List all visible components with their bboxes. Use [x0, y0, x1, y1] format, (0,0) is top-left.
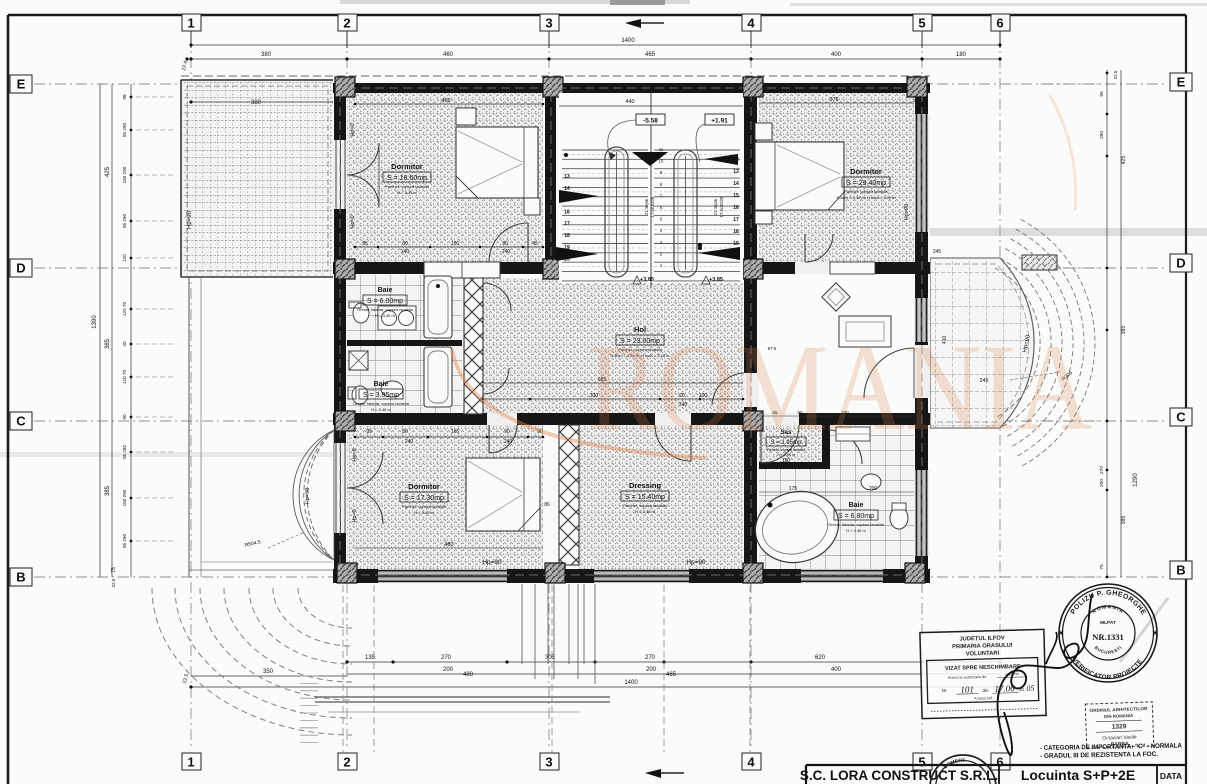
svg-text:Parchet, vopsea lavabila: Parchet, vopsea lavabila — [844, 189, 888, 194]
svg-text:240: 240 — [502, 249, 511, 255]
svg-text:S = 15.40mp: S = 15.40mp — [625, 494, 665, 501]
svg-text:465: 465 — [666, 672, 677, 678]
svg-text:465: 465 — [441, 98, 450, 104]
svg-text:22.5: 22.5 — [111, 578, 116, 587]
svg-text:Baie: Baie — [374, 381, 389, 388]
svg-text:H = 3.45 m: H = 3.45 m — [414, 510, 434, 515]
svg-text:Hp=90: Hp=90 — [686, 559, 706, 566]
svg-text:Parchet, vopsea lavabila: Parchet, vopsea lavabila — [385, 184, 429, 189]
svg-text:18: 18 — [564, 233, 570, 239]
svg-text:13: 13 — [564, 174, 570, 180]
svg-text:+3.85: +3.85 — [709, 277, 723, 283]
svg-text:95: 95 — [1099, 91, 1105, 97]
svg-text:S = 6.80mp: S = 6.80mp — [838, 513, 874, 520]
svg-text:Hp=0: Hp=0 — [352, 509, 358, 522]
svg-text:55 290: 55 290 — [122, 123, 127, 137]
svg-text:385: 385 — [1121, 516, 1127, 525]
svg-text:165: 165 — [451, 429, 460, 435]
svg-text:VOLUNTARI: VOLUNTARI — [966, 651, 1000, 658]
svg-text:22.5: 22.5 — [1113, 70, 1118, 79]
svg-text:26: 26 — [746, 98, 752, 103]
svg-text:90: 90 — [504, 429, 510, 435]
svg-text:Parchet, vopsea lavabila: Parchet, vopsea lavabila — [623, 503, 667, 508]
svg-text:2: 2 — [343, 16, 350, 31]
svg-text:17: 17 — [564, 221, 570, 227]
svg-text:80: 80 — [402, 241, 408, 247]
svg-text:Hp=90: Hp=90 — [482, 559, 502, 566]
svg-text:160 290: 160 290 — [122, 489, 127, 506]
svg-text:200: 200 — [869, 486, 878, 492]
svg-text:17.5x30/28: 17.5x30/28 — [719, 196, 724, 217]
svg-text:2: 2 — [343, 755, 350, 770]
svg-text:55 280: 55 280 — [122, 445, 127, 459]
svg-text:3: 3 — [545, 755, 552, 770]
svg-text:95: 95 — [362, 241, 368, 247]
svg-text:S = 17.30mp: S = 17.30mp — [404, 495, 444, 502]
svg-text:5: 5 — [918, 16, 925, 31]
svg-text:16: 16 — [733, 205, 739, 211]
svg-text:200: 200 — [646, 667, 657, 673]
svg-text:C: C — [16, 414, 26, 429]
svg-text:21 trepte: 21 trepte — [713, 198, 718, 215]
svg-text:A-lasul sef.: A-lasul sef. — [974, 696, 993, 700]
svg-text:385: 385 — [105, 338, 111, 349]
svg-text:Dormitor: Dormitor — [391, 162, 423, 171]
svg-text:480: 480 — [463, 672, 474, 678]
svg-text:Parchet, vopsea lavabila: Parchet, vopsea lavabila — [402, 504, 446, 509]
svg-text:16: 16 — [564, 209, 570, 215]
svg-text:S = 29.40mp: S = 29.40mp — [846, 180, 886, 187]
svg-text:14: 14 — [564, 186, 570, 192]
svg-text:25: 25 — [548, 101, 554, 106]
svg-text:✶: ✶ — [1057, 628, 1065, 638]
svg-text:Hp=0: Hp=0 — [350, 215, 356, 228]
svg-text:MLPAT: MLPAT — [1100, 620, 1116, 626]
svg-text:H = 3.45 m: H = 3.45 m — [397, 190, 417, 195]
svg-text:11: 11 — [659, 147, 664, 152]
svg-text:480: 480 — [444, 542, 453, 548]
svg-text:05: 05 — [1026, 684, 1034, 693]
svg-text:290: 290 — [1099, 131, 1105, 139]
svg-text:S = 18.60mp: S = 18.60mp — [387, 175, 427, 182]
svg-text:E: E — [1177, 75, 1186, 90]
svg-text:ROMANIA: ROMANIA — [588, 319, 1093, 456]
svg-text:270: 270 — [441, 655, 452, 661]
svg-text:15: 15 — [733, 193, 739, 199]
svg-text:14: 14 — [733, 181, 739, 187]
svg-text:19: 19 — [733, 241, 739, 247]
svg-text:NR.1331: NR.1331 — [1092, 632, 1123, 642]
svg-text:200: 200 — [1099, 479, 1105, 487]
svg-text:C: C — [1176, 410, 1186, 425]
svg-text:+3.85: +3.85 — [640, 277, 654, 283]
svg-text:Hp=90: Hp=90 — [904, 204, 910, 220]
svg-text:160 290: 160 290 — [122, 166, 127, 183]
svg-text:440: 440 — [625, 99, 634, 105]
svg-text:620: 620 — [815, 655, 826, 661]
svg-text:150: 150 — [451, 241, 460, 247]
svg-text:DATA: DATA — [1160, 771, 1182, 781]
svg-text:Gresie, faianta, vopsea lavabi: Gresie, faianta, vopsea lavabila — [828, 522, 885, 527]
svg-text:98: 98 — [122, 94, 127, 100]
svg-text:350: 350 — [263, 669, 274, 675]
svg-text:75: 75 — [1099, 564, 1105, 570]
svg-text:H.liber = 3.15 m; H max = 3.45: H.liber = 3.15 m; H max = 3.45 m — [837, 195, 897, 200]
svg-text:380: 380 — [261, 52, 272, 58]
svg-text:6: 6 — [996, 16, 1003, 31]
svg-text:Hp=90: Hp=90 — [187, 210, 193, 229]
svg-text:385: 385 — [105, 485, 111, 496]
svg-text:18: 18 — [733, 229, 739, 235]
svg-text:385: 385 — [1121, 326, 1127, 335]
svg-text:400: 400 — [831, 667, 842, 673]
svg-text:75: 75 — [111, 567, 117, 573]
svg-text:425: 425 — [1121, 156, 1127, 165]
svg-text:Hp=0: Hp=0 — [352, 448, 358, 461]
svg-text:36: 36 — [334, 101, 340, 106]
svg-text:40: 40 — [122, 341, 127, 347]
svg-text:1: 1 — [187, 755, 194, 770]
svg-text:1400: 1400 — [624, 680, 638, 686]
svg-text:H = 3.45 m: H = 3.45 m — [635, 509, 655, 514]
svg-text:D: D — [16, 261, 25, 276]
svg-text:86: 86 — [544, 502, 550, 508]
svg-text:S.C. LORA CONSTRUCT S.R.L.: S.C. LORA CONSTRUCT S.R.L. — [800, 768, 998, 783]
svg-text:90: 90 — [502, 241, 508, 247]
svg-text:465: 465 — [645, 52, 656, 58]
svg-text:din: din — [982, 688, 989, 693]
svg-text:95: 95 — [366, 429, 372, 435]
svg-text:Dormitor: Dormitor — [850, 167, 882, 176]
svg-text:120 70: 120 70 — [122, 370, 127, 384]
svg-text:H = 3.45 m: H = 3.45 m — [375, 313, 395, 318]
svg-text:17: 17 — [733, 217, 739, 223]
svg-text:101: 101 — [960, 684, 974, 694]
svg-text:380: 380 — [251, 100, 262, 106]
svg-text:4: 4 — [747, 755, 755, 770]
svg-text:240: 240 — [401, 249, 410, 255]
svg-text:55 290: 55 290 — [122, 534, 127, 548]
svg-text:245: 245 — [933, 249, 942, 255]
svg-text:S = 3.95mp: S = 3.95mp — [363, 392, 399, 399]
svg-text:E: E — [17, 77, 26, 92]
svg-text:D: D — [1176, 256, 1185, 271]
svg-text:Locuinta S+P+2E: Locuinta S+P+2E — [1021, 767, 1135, 783]
svg-text:21 trepte: 21 trepte — [644, 198, 649, 215]
svg-text:10: 10 — [659, 159, 664, 164]
svg-text:Hp=0: Hp=0 — [350, 123, 356, 136]
svg-text:36: 36 — [912, 98, 918, 103]
svg-text:90: 90 — [122, 414, 127, 420]
svg-text:1: 1 — [187, 16, 194, 31]
svg-text:H = 3.45 m: H = 3.45 m — [846, 528, 866, 533]
svg-text:80: 80 — [402, 429, 408, 435]
svg-text:B: B — [1176, 563, 1185, 578]
svg-text:120: 120 — [122, 254, 127, 262]
svg-text:45: 45 — [532, 241, 538, 247]
svg-text:400: 400 — [831, 52, 842, 58]
svg-text:Gresie, faianta, vopsea lavabi: Gresie, faianta, vopsea lavabila — [357, 307, 414, 312]
svg-text:460: 460 — [443, 52, 454, 58]
svg-text:Hp=90: Hp=90 — [305, 488, 311, 504]
svg-text:Baie: Baie — [378, 287, 393, 294]
svg-text:Baie: Baie — [849, 502, 864, 509]
svg-text:Dormitor: Dormitor — [408, 482, 440, 491]
svg-text:S = 6.00mp: S = 6.00mp — [367, 298, 403, 305]
svg-text:175: 175 — [789, 486, 798, 492]
svg-text:120 70: 120 70 — [122, 302, 127, 316]
svg-text:200: 200 — [443, 667, 454, 673]
svg-text:1329: 1329 — [1112, 723, 1127, 731]
svg-text:13: 13 — [733, 169, 739, 175]
svg-text:1400: 1400 — [621, 38, 635, 44]
svg-text:Dressing: Dressing — [629, 481, 662, 490]
svg-text:270: 270 — [645, 655, 656, 661]
svg-text:240: 240 — [504, 439, 513, 445]
svg-text:375: 375 — [829, 97, 838, 103]
svg-text:4: 4 — [747, 16, 755, 31]
svg-text:180: 180 — [956, 52, 967, 58]
svg-text:1290: 1290 — [1133, 473, 1139, 487]
svg-text:1390: 1390 — [92, 315, 98, 329]
svg-text:270: 270 — [1099, 466, 1105, 474]
svg-text:+1.91: +1.91 — [711, 118, 728, 125]
svg-text:B: B — [16, 570, 25, 585]
svg-text:55 290: 55 290 — [122, 214, 127, 228]
svg-text:✶: ✶ — [1151, 628, 1159, 638]
svg-text:-5.58: -5.58 — [643, 118, 658, 125]
svg-text:DIN ROMANIA: DIN ROMANIA — [1104, 713, 1133, 719]
svg-text:Nr.: Nr. — [941, 688, 947, 693]
svg-text:240: 240 — [405, 439, 414, 445]
svg-text:425: 425 — [105, 166, 111, 177]
svg-text:180: 180 — [782, 458, 791, 464]
svg-text:Gresie, faianta, vopsea lavabi: Gresie, faianta, vopsea lavabila — [353, 401, 410, 406]
svg-text:3: 3 — [545, 16, 552, 31]
svg-text:H = 3.45 m: H = 3.45 m — [371, 407, 391, 412]
svg-text:JUDETUL ILFOV: JUDETUL ILFOV — [959, 635, 1005, 642]
svg-text:17.5x30/28: 17.5x30/28 — [650, 196, 655, 217]
